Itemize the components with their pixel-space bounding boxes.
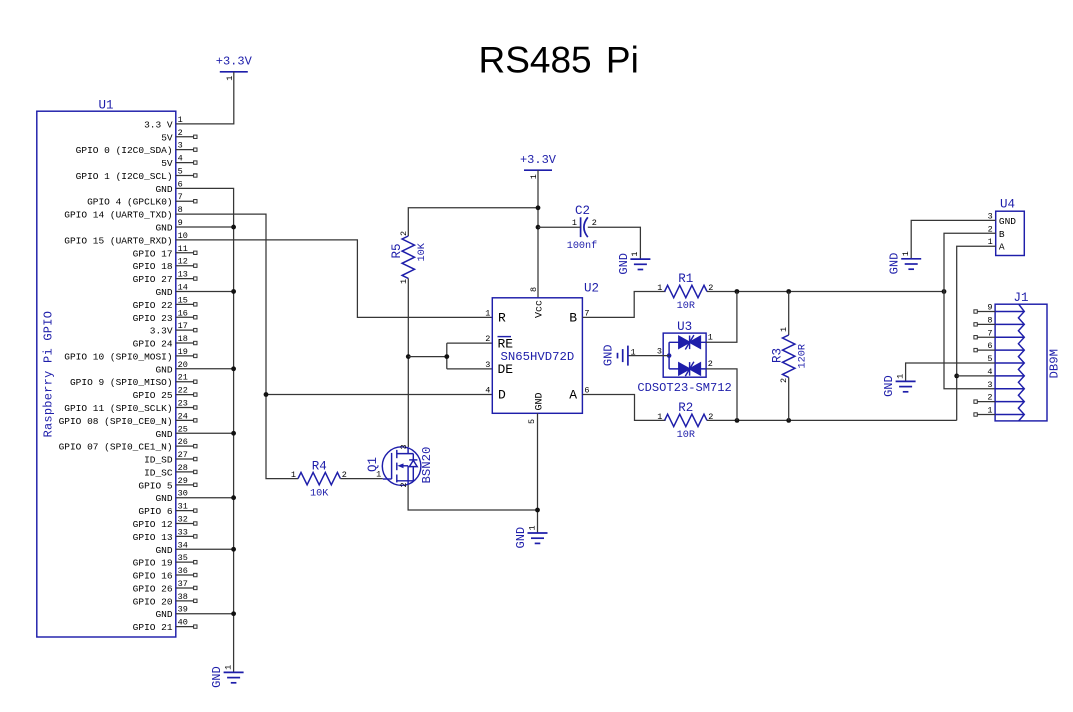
svg-text:4: 4 [178,154,183,164]
U1 pin 17 3.3V [176,329,194,331]
resistor R5 [402,236,414,278]
U1 pin 29 GPIO 5 [176,484,194,486]
wire U1 pin 30 GND stub [176,497,234,499]
svg-text:GND: GND [535,392,546,410]
svg-text:15: 15 [178,295,188,305]
svg-text:U1: U1 [98,99,113,113]
J1 pin 6 row line [995,349,1023,351]
svg-text:1: 1 [223,665,233,670]
TVS diode U3 CDSOT23-SM712 body [663,333,706,377]
svg-text:GND: GND [155,545,172,556]
J1 internal zigzag [1018,304,1024,421]
junction TXD/D [264,392,269,397]
wire U4 pin3 to ground [911,220,996,258]
svg-text:GPIO 14 (UART0_TXD): GPIO 14 (UART0_TXD) [64,210,172,221]
J1 pin 2 stub [977,401,995,403]
IC U2 SN65HVD72D body [492,298,582,414]
junction +3.3V/R5 [536,205,541,210]
U1 pin 2 5V [176,136,194,138]
svg-text:8: 8 [529,287,539,292]
U1 pin 19 GPIO 10 (SPI0_MOSI) [176,355,194,357]
J1 pin 6 stub [977,349,995,351]
svg-text:29: 29 [178,476,188,486]
U1 pin 36 GPIO 16 [176,574,194,576]
wire U1 pin 14 GND stub [176,290,234,292]
svg-text:BSN20: BSN20 [420,447,434,484]
U1 pin 21 GPIO 9 (SPI0_MISO) [176,381,194,383]
wire R5 down to Q1 drain [407,278,409,447]
svg-text:GPIO 08 (SPI0_CE0_N): GPIO 08 (SPI0_CE0_N) [59,416,173,427]
wire Q1 source to GND net [408,485,537,510]
svg-text:R: R [498,311,506,326]
svg-text:GND: GND [882,375,896,397]
J1 pin 7 row line [995,336,1023,338]
svg-text:2: 2 [708,359,713,369]
svg-text:R3: R3 [771,348,785,363]
svg-text:GPIO 24: GPIO 24 [133,339,173,350]
junction at GND rail pin 9 [231,225,236,230]
svg-text:GPIO 15 (UART0_RXD): GPIO 15 (UART0_RXD) [64,235,172,246]
J1 pin 7 stub [977,336,995,338]
wire B to R3 [788,292,790,336]
svg-text:GND: GND [999,216,1016,227]
svg-text:40: 40 [178,618,188,628]
svg-text:3: 3 [657,346,662,356]
junction at GND rail pin 20 [231,366,236,371]
svg-text:32: 32 [178,514,188,524]
wire U1 pin 25 GND stub [176,432,234,434]
svg-text:GND: GND [155,364,172,375]
svg-text:13: 13 [178,270,188,280]
svg-text:GPIO 18: GPIO 18 [133,261,173,272]
J1 pin 9 row line [995,311,1023,313]
connector J1 DB9M body [995,304,1047,421]
U1 pin 24 GPIO 08 (SPI0_CE0_N) [176,419,194,421]
U1 pin 27 ID_SD [176,458,194,460]
svg-text:C2: C2 [575,204,590,218]
U3 internal junction pin3 [667,353,672,358]
junction at GND rail pin 14 [231,289,236,294]
svg-text:A: A [999,242,1005,253]
svg-text:U3: U3 [677,320,692,334]
svg-text:R1: R1 [678,272,693,286]
svg-text:22: 22 [178,386,188,396]
wire U3 pin2 to A [706,369,737,421]
svg-text:33: 33 [178,527,188,537]
U1 pin 40 GPIO 21 [176,626,194,628]
svg-text:31: 31 [178,502,188,512]
wire +3.3V to C2 pin 1 [538,226,581,228]
svg-text:CDSOT23-SM712: CDSOT23-SM712 [637,381,731,395]
svg-text:27: 27 [178,450,188,460]
svg-text:37: 37 [178,579,188,589]
svg-text:11: 11 [178,244,188,254]
svg-text:10K: 10K [417,242,428,261]
svg-text:GPIO 6: GPIO 6 [138,506,173,517]
svg-text:GPIO 22: GPIO 22 [133,300,173,311]
wire B bus down to J1 pin3 [944,292,995,389]
svg-text:GND: GND [514,527,528,549]
wire U1 pin 20 GND stub [176,368,234,370]
wire U3 pin3 to ground [628,355,669,357]
svg-text:J1: J1 [1013,291,1028,305]
svg-text:GPIO 19: GPIO 19 [133,558,173,569]
wire U2 B to R1 [582,292,665,318]
U1 pin 31 GPIO 6 [176,510,194,512]
junction B/U3 pin1 [735,289,740,294]
power +3.3V at U1 pin 1 [220,71,248,73]
J1 pin 1 row line [995,414,1023,416]
wire U2 GND pin 5 down [537,413,539,533]
svg-text:4: 4 [485,386,490,396]
J1 pin 3 row line [995,388,1023,390]
svg-text:GPIO 26: GPIO 26 [133,583,173,594]
svg-text:ID_SD: ID_SD [144,455,173,466]
U1 pin 16 GPIO 23 [176,316,194,318]
resistor R4 [298,472,340,484]
U1 pin 35 GPIO 19 [176,561,194,563]
svg-text:35: 35 [178,553,188,563]
svg-text:1: 1 [987,406,992,416]
svg-text:24: 24 [178,411,188,421]
svg-text:3.3V: 3.3V [150,326,173,337]
svg-text:1: 1 [291,470,296,480]
wire R3 to A [788,377,790,420]
svg-text:3: 3 [485,360,490,370]
wire A to J1 pin4 [957,375,995,377]
wire TXD branch to U2 pin D [266,394,492,396]
svg-text:19: 19 [178,347,188,357]
wire +3.3V branch to R5 [408,208,538,236]
svg-text:GND: GND [601,344,615,366]
J1 pin 1 stub [977,414,995,416]
svg-text:3: 3 [399,444,409,449]
U1 pin 32 GPIO 12 [176,522,194,524]
svg-text:GPIO 12: GPIO 12 [133,519,173,530]
svg-text:1: 1 [657,283,662,293]
svg-text:2: 2 [399,231,409,236]
svg-text:10R: 10R [677,301,695,312]
wire U2 A to R2 [582,395,665,421]
ground symbol below U1 [224,671,244,673]
svg-text:U2: U2 [584,282,599,296]
svg-text:1: 1 [485,308,490,318]
svg-text:1: 1 [657,412,662,422]
svg-text:7: 7 [178,192,183,202]
svg-text:R5: R5 [390,243,404,258]
wire U4 pin2 to B bus [944,233,996,291]
junction B/U4/J1 [942,289,947,294]
U1 pin 22 GPIO 25 [176,394,194,396]
svg-text:5: 5 [527,419,537,424]
svg-text:2: 2 [399,482,409,487]
ground symbol at J1 pin5 [896,380,916,382]
svg-text:12: 12 [178,257,188,267]
U1 pin 7 GPIO 4 (GPCLK0) [176,200,194,202]
U1 pin 4 5V [176,162,194,164]
svg-text:5V: 5V [161,158,173,169]
svg-text:1: 1 [708,332,713,342]
svg-text:GPIO 9 (SPI0_MISO): GPIO 9 (SPI0_MISO) [70,377,173,388]
svg-text:GND: GND [617,253,631,275]
J1 pin 8 row line [995,323,1023,325]
svg-text:+3.3V: +3.3V [520,153,557,167]
wire R4 to Q1 gate [340,478,382,480]
svg-text:38: 38 [178,592,188,602]
U1 pin 33 GPIO 13 [176,535,194,537]
svg-text:GND: GND [155,184,172,195]
U1 pin 3 GPIO 0 (I2C0_SDA) [176,149,194,151]
svg-text:3.3 V: 3.3 V [144,119,173,130]
svg-text:1: 1 [572,218,577,228]
svg-text:GND: GND [155,493,172,504]
svg-text:GND: GND [155,429,172,440]
svg-text:2: 2 [592,218,597,228]
svg-text:23: 23 [178,398,188,408]
junction Q1 source/GND [535,508,540,513]
resistor R3 [783,335,795,377]
svg-text:1: 1 [779,327,789,332]
U1 pin 15 GPIO 22 [176,303,194,305]
U1 pin 18 GPIO 24 [176,342,194,344]
svg-text:GPIO 21: GPIO 21 [133,622,173,633]
U3 internal diodes [669,335,706,376]
svg-text:GPIO 4 (GPCLK0): GPIO 4 (GPCLK0) [87,197,173,208]
J1 pin 4 row line [995,375,1023,377]
wire R1 to B bus [707,291,944,293]
svg-text:28: 28 [178,463,188,473]
svg-text:GND: GND [210,666,224,688]
svg-text:GPIO 16: GPIO 16 [133,571,173,582]
wire U4 pin1 to A bus [957,246,996,420]
svg-text:2: 2 [178,128,183,138]
svg-text:2: 2 [987,393,992,403]
wire C2 pin 2 to ground [588,227,641,259]
svg-text:RS485 Pi: RS485 Pi [479,39,639,80]
svg-text:GPIO 23: GPIO 23 [133,313,173,324]
wire +3.3V to U1 pin 1 [176,72,234,124]
svg-text:3: 3 [987,380,992,390]
J1 pin 2 row line [995,401,1023,403]
svg-text:1: 1 [399,279,409,284]
svg-text:ID_SC: ID_SC [144,467,173,478]
capacitor C2 [580,217,582,237]
junction at GND rail pin 39 [231,611,236,616]
svg-text:B: B [569,311,577,326]
svg-text:7: 7 [987,328,992,338]
svg-text:GND: GND [155,223,172,234]
wire U1 pin 34 GND stub [176,548,234,550]
svg-text:18: 18 [178,334,188,344]
U1 pin 13 GPIO 27 [176,278,194,280]
J1 pin 5 row line [995,362,1023,364]
svg-text:GND: GND [155,287,172,298]
wire Q1 drain up to R5/RE-DE node [407,446,409,448]
power +3.3V above U2 [524,169,552,171]
svg-text:GPIO 20: GPIO 20 [133,596,173,607]
ground symbol at U3 pin 3 [627,346,629,366]
svg-text:5V: 5V [161,132,173,143]
svg-text:17: 17 [178,321,188,331]
svg-text:DE: DE [498,362,514,377]
svg-text:5: 5 [178,166,183,176]
svg-text:R4: R4 [312,459,327,473]
wire U1 pin 39 GND stub [176,613,234,615]
connector U1 Raspberry Pi GPIO body [37,111,176,637]
svg-text:GPIO 07 (SPI0_CE1_N): GPIO 07 (SPI0_CE1_N) [59,442,173,453]
svg-text:10R: 10R [677,430,695,441]
svg-text:GPIO 5: GPIO 5 [138,480,173,491]
svg-text:1: 1 [630,251,640,256]
connector U4 body [996,211,1025,255]
ground symbol at U4 [901,258,921,260]
wire +3.3V stem to U2 Vcc [537,170,539,298]
junction at GND rail pin 30 [231,495,236,500]
junction B/R3 [786,289,791,294]
junction RE-DE bracket [444,354,449,359]
junction A/J1 pin4 [954,374,959,379]
U1 pin 38 GPIO 20 [176,600,194,602]
svg-text:10K: 10K [310,488,329,499]
U1 pin 11 GPIO 17 [176,252,194,254]
svg-text:GPIO 17: GPIO 17 [133,248,173,259]
wire UART0_RXD from U1 pin 10 to U2 R [176,240,493,317]
U1 pin 5 GPIO 1 (I2C0_SCL) [176,174,194,176]
svg-text:8: 8 [987,315,992,325]
svg-text:2: 2 [485,334,490,344]
svg-text:GPIO 0 (I2C0_SDA): GPIO 0 (I2C0_SDA) [76,145,173,156]
svg-text:36: 36 [178,566,188,576]
svg-text:Raspberry Pi GPIO: Raspberry Pi GPIO [42,311,56,438]
svg-text:GPIO 1 (I2C0_SCL): GPIO 1 (I2C0_SCL) [76,171,173,182]
svg-text:1: 1 [631,348,636,358]
J1 pin 8 stub [977,323,995,325]
svg-text:GPIO 11 (SPI0_SCLK): GPIO 11 (SPI0_SCLK) [64,403,172,414]
svg-text:2: 2 [779,378,789,383]
wire U1 pin 9 GND stub [176,226,234,228]
svg-text:100nf: 100nf [567,240,598,252]
junction at GND rail pin 25 [231,431,236,436]
ground symbol below U2 [528,532,548,534]
svg-text:26: 26 [178,437,188,447]
svg-text:+3.3V: +3.3V [216,55,253,69]
svg-text:GPIO 13: GPIO 13 [133,532,173,543]
U1 pin 23 GPIO 11 (SPI0_SCLK) [176,406,194,408]
svg-text:4: 4 [987,367,992,377]
svg-text:GPIO 10 (SPI0_MOSI): GPIO 10 (SPI0_MOSI) [64,351,172,362]
wire R2 to A bus [707,419,957,421]
junction A/U3 pin2 [735,418,740,423]
svg-text:GPIO 25: GPIO 25 [133,390,173,401]
svg-text:GPIO 27: GPIO 27 [133,274,173,285]
wire GND rail from U1 pin 6 down [176,188,234,672]
svg-text:120R: 120R [797,344,808,368]
transistor Q1 BSN20 [382,447,421,486]
U1 pin 28 ID_SC [176,471,194,473]
svg-text:GND: GND [888,253,902,275]
svg-text:GND: GND [155,609,172,620]
svg-text:U4: U4 [1000,198,1015,212]
svg-text:21: 21 [178,373,188,383]
junction at GND rail pin 34 [231,547,236,552]
U1 pin 37 GPIO 26 [176,587,194,589]
wire U3 pin1 to B [706,292,737,343]
junction A/R3 [786,418,791,423]
svg-text:DB9M: DB9M [1048,349,1062,379]
wire node to RE DE bracket [408,343,492,369]
svg-text:9: 9 [987,303,992,313]
svg-text:D: D [498,388,506,403]
wire GND to J1 pin5 [906,363,996,381]
resistor R2 [665,414,707,426]
svg-text:16: 16 [178,308,188,318]
svg-text:3: 3 [178,141,183,151]
resistor R1 [665,285,707,297]
svg-text:1: 1 [376,470,381,480]
U1 pin 12 GPIO 18 [176,265,194,267]
svg-text:Vcc: Vcc [535,300,546,318]
svg-text:1: 1 [895,374,905,379]
junction R5/RE-DE/Q1 [406,354,411,359]
svg-text:6: 6 [987,341,992,351]
junction +3.3V/C2 [536,225,541,230]
svg-text:RE: RE [498,336,514,351]
svg-text:1: 1 [527,525,537,530]
wire UART0_TXD from U1 pin 8 [176,214,298,478]
svg-text:R2: R2 [678,401,693,415]
J1 pin 9 stub [977,311,995,313]
U1 pin 26 GPIO 07 (SPI0_CE1_N) [176,445,194,447]
svg-text:A: A [569,388,577,403]
ground symbol at C2 [630,258,650,260]
svg-text:B: B [999,229,1005,240]
svg-text:1: 1 [901,251,911,256]
